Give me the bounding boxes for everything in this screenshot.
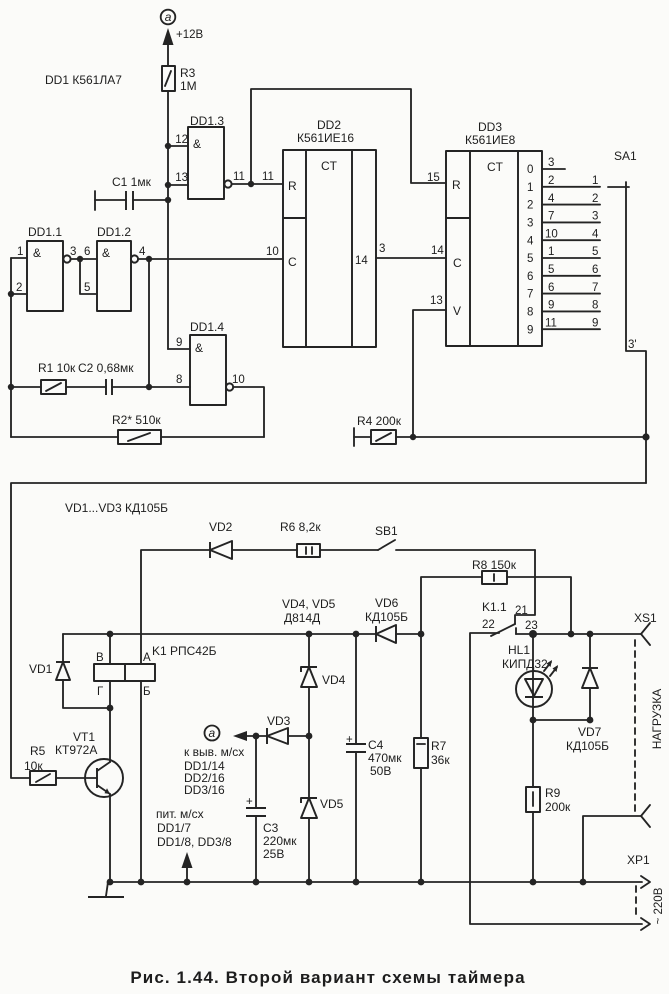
svg-text:VD4, VD5: VD4, VD5 xyxy=(282,597,336,611)
svg-text:&: & xyxy=(193,137,201,151)
wire collector xyxy=(109,708,111,762)
svg-text:Г: Г xyxy=(97,686,104,698)
svg-text:470мк: 470мк xyxy=(368,751,402,765)
svg-text:1: 1 xyxy=(17,246,23,258)
node R4 / V junction xyxy=(410,434,416,440)
svg-text:VD1...VD3 КД105Б: VD1...VD3 КД105Б xyxy=(65,501,168,515)
node C4 bottom junction xyxy=(353,879,360,886)
wire DD1.2 out to DD2 C xyxy=(138,258,283,260)
svg-text:В: В xyxy=(96,652,104,664)
svg-text:8: 8 xyxy=(176,374,182,386)
resistor R1 xyxy=(11,361,106,394)
node R7 bottom junction xyxy=(418,879,425,886)
wire R3 to gate inputs xyxy=(167,91,169,349)
svg-text:C: C xyxy=(453,256,462,270)
svg-text:8: 8 xyxy=(527,307,533,319)
gate DD1.4 xyxy=(149,320,245,405)
svg-text:4: 4 xyxy=(548,193,555,205)
DD3 output 1 pin 2 / wire to SA1 contact 1 xyxy=(527,175,600,194)
svg-text:13: 13 xyxy=(430,295,443,307)
wire out4 down to C2 row xyxy=(148,259,150,387)
svg-text:7: 7 xyxy=(527,289,533,301)
svg-text:2: 2 xyxy=(592,193,598,205)
svg-text:5: 5 xyxy=(527,253,533,265)
relay contact K1.1 xyxy=(482,600,538,636)
svg-text:~ 220В: ~ 220В xyxy=(653,887,665,924)
svg-text:DD1.1: DD1.1 xyxy=(28,225,62,239)
svg-text:С2 0,68мк: С2 0,68мк xyxy=(78,361,134,375)
resistor R5 xyxy=(24,744,56,785)
node HL1 bottom junction xyxy=(530,717,537,724)
svg-text:R4 200к: R4 200к xyxy=(357,414,402,428)
node C2 right junction xyxy=(146,384,152,390)
svg-text:1М: 1М xyxy=(180,79,197,93)
svg-text:R: R xyxy=(288,179,297,193)
resistor R4 xyxy=(354,414,646,446)
capacitor C4 xyxy=(346,634,402,882)
svg-text:25В: 25В xyxy=(263,847,284,861)
svg-text:7: 7 xyxy=(592,282,598,294)
node VD5 bottom junction xyxy=(306,879,313,886)
DD3 output 4 pin 10 / wire to SA1 contact 4 xyxy=(527,228,600,247)
svg-text:DD3: DD3 xyxy=(478,120,502,134)
svg-text:4: 4 xyxy=(527,235,534,247)
svg-text:&: & xyxy=(33,246,41,260)
node relay B top junction xyxy=(107,631,114,638)
connector XP1 upper pin xyxy=(627,853,650,888)
svg-text:10: 10 xyxy=(266,246,279,258)
svg-text:5: 5 xyxy=(592,246,598,258)
svg-text:Д814Д: Д814Д xyxy=(284,611,320,625)
wire mains rail to K1.1 contact 22 xyxy=(470,633,642,924)
wire DD1.3 output to DD2 R xyxy=(232,183,283,185)
node XS1 wire junction xyxy=(580,879,587,886)
svg-text:14: 14 xyxy=(431,245,444,257)
svg-text:пит. м/сх: пит. м/сх xyxy=(156,807,204,821)
svg-text:С1 1мк: С1 1мк xyxy=(112,175,152,189)
connector XS1 upper contact xyxy=(634,611,657,645)
svg-text:11: 11 xyxy=(233,171,245,183)
svg-text:5: 5 xyxy=(548,264,554,276)
node C4 top junction xyxy=(353,631,360,638)
wire ground bus xyxy=(110,881,642,883)
counter DD2 xyxy=(283,118,376,347)
svg-text:HL1: HL1 xyxy=(508,643,530,657)
wire feedback from 3' to R5 rail xyxy=(11,483,646,778)
svg-text:XP1: XP1 xyxy=(627,853,650,867)
transistor VT1 xyxy=(55,730,123,882)
svg-text:3: 3 xyxy=(592,211,598,223)
svg-text:3: 3 xyxy=(379,243,385,255)
arrow to point a xyxy=(233,731,256,741)
svg-text:22: 22 xyxy=(482,619,495,631)
DD3 output 8 pin 9 / wire to SA1 contact 8 xyxy=(527,300,600,319)
gate DD1.2 xyxy=(84,225,146,311)
svg-text:КД105Б: КД105Б xyxy=(566,739,609,753)
svg-text:VD4: VD4 xyxy=(322,673,346,687)
wire DD1.1 out to DD1.2 in xyxy=(71,258,97,260)
node pin2 junction xyxy=(8,291,14,297)
svg-text:КТ972А: КТ972А xyxy=(55,743,97,757)
svg-text:НАГРУЗКА: НАГРУЗКА xyxy=(650,689,664,750)
svg-text:6: 6 xyxy=(84,246,90,258)
svg-text:K1 РПС42Б: K1 РПС42Б xyxy=(152,644,217,658)
svg-text:23: 23 xyxy=(525,620,538,632)
svg-text:6: 6 xyxy=(527,271,533,283)
zener VD5 xyxy=(301,736,344,882)
power arrow to supply xyxy=(156,807,232,882)
svg-text:220мк: 220мк xyxy=(263,834,297,848)
svg-text:DD1 К561ЛА7: DD1 К561ЛА7 xyxy=(45,73,122,87)
svg-text:Рис. 1.44. Второй вариант схем: Рис. 1.44. Второй вариант схемы таймера xyxy=(130,968,525,987)
svg-text:&: & xyxy=(102,246,110,260)
svg-text:VD1: VD1 xyxy=(29,662,53,676)
node C3 bottom junction xyxy=(253,879,260,886)
diode VD1 xyxy=(29,634,110,708)
svg-text:DD2: DD2 xyxy=(317,118,341,132)
wire DD1.4 out to R2 row xyxy=(233,387,264,437)
svg-text:CT: CT xyxy=(321,159,338,173)
counter DD3 xyxy=(446,120,542,346)
node C1 junction xyxy=(165,197,171,203)
svg-text:200к: 200к xyxy=(545,800,571,814)
svg-text:DD1.3: DD1.3 xyxy=(190,114,224,128)
svg-text:10: 10 xyxy=(232,374,245,386)
node VD4 top junction xyxy=(306,631,313,638)
svg-text:&: & xyxy=(195,341,203,355)
node pin12 junction xyxy=(165,143,171,149)
svg-text:2: 2 xyxy=(16,282,22,294)
node R9 bottom junction xyxy=(530,879,537,886)
svg-text:2: 2 xyxy=(548,175,554,187)
svg-text:13: 13 xyxy=(175,172,188,184)
node VD7 top junction xyxy=(587,631,594,638)
svg-text:14: 14 xyxy=(355,255,368,267)
svg-text:C: C xyxy=(288,255,297,269)
svg-text:Б: Б xyxy=(143,686,151,698)
svg-text:9: 9 xyxy=(592,317,598,329)
node VD7 bottom junction xyxy=(587,717,594,724)
svg-text:R6 8,2к: R6 8,2к xyxy=(280,520,321,534)
resistor R6 xyxy=(280,520,378,557)
svg-text:К561ИЕ16: К561ИЕ16 xyxy=(297,131,354,145)
node out4 junction xyxy=(146,256,152,262)
DD3 output 6 pin 5 / wire to SA1 contact 6 xyxy=(527,264,600,283)
wire DD3 pin13 V to R4 row xyxy=(413,310,446,437)
svg-text:DD1.2: DD1.2 xyxy=(97,225,131,239)
svg-text:DD1/8, DD3/8: DD1/8, DD3/8 xyxy=(157,835,232,849)
svg-text:а: а xyxy=(209,726,216,740)
node VD3/VD4 junction xyxy=(306,733,313,740)
node arrow junction xyxy=(184,879,191,886)
capacitor C3 xyxy=(246,736,297,882)
svg-text:3: 3 xyxy=(527,218,533,230)
svg-text:R9: R9 xyxy=(545,786,561,800)
svg-text:R3: R3 xyxy=(180,66,196,80)
diode VD3 xyxy=(256,714,309,744)
svg-text:VD5: VD5 xyxy=(320,797,344,811)
svg-text:VD7: VD7 xyxy=(578,725,602,739)
switch SB1 xyxy=(375,524,535,550)
node VD1/collector junction xyxy=(107,705,114,712)
wire to XS1 lower contact xyxy=(583,816,641,882)
svg-text:50В: 50В xyxy=(370,764,391,778)
SA1 switch xyxy=(608,149,646,483)
gate DD1.1 xyxy=(11,225,76,311)
svg-text:9: 9 xyxy=(548,300,554,312)
label VD4 VD5 type xyxy=(282,597,336,625)
svg-text:6: 6 xyxy=(592,264,598,276)
DD3 output 3 pin 7 / wire to SA1 contact 3 xyxy=(527,211,600,230)
node a (terminal circle bottom) xyxy=(184,726,244,798)
wire left rail (inputs / R1 / R2) xyxy=(10,258,12,437)
svg-text:1: 1 xyxy=(592,175,598,187)
svg-text:VD2: VD2 xyxy=(209,520,233,534)
svg-text:4: 4 xyxy=(592,228,599,240)
node a (terminal circle) xyxy=(161,10,176,25)
svg-text:7: 7 xyxy=(548,211,554,223)
svg-text:4: 4 xyxy=(139,246,146,258)
svg-text:КД105Б: КД105Б xyxy=(365,610,408,624)
svg-text:DD1/7: DD1/7 xyxy=(157,821,191,835)
node R8 right junction xyxy=(568,631,575,638)
svg-text:DD3/16: DD3/16 xyxy=(184,783,225,797)
capacitor C2 xyxy=(78,361,149,395)
svg-text:3: 3 xyxy=(548,157,554,169)
capacitor C1 xyxy=(95,175,168,210)
svg-text:к выв. м/сх: к выв. м/сх xyxy=(184,745,244,759)
svg-text:36к: 36к xyxy=(431,753,450,767)
node emitter/ground junction xyxy=(107,879,114,886)
LED HL1 xyxy=(502,634,558,720)
svg-text:КИПД32: КИПД32 xyxy=(502,657,548,671)
wire DC bus right segment xyxy=(533,633,641,635)
diode VD2 xyxy=(209,520,297,559)
svg-text:5: 5 xyxy=(84,282,90,294)
svg-text:21: 21 xyxy=(515,605,528,617)
svg-text:VD3: VD3 xyxy=(267,714,291,728)
svg-text:К561ИЕ8: К561ИЕ8 xyxy=(465,133,516,147)
relay coil K1 xyxy=(94,634,217,882)
svg-text:0: 0 xyxy=(527,164,533,176)
resistor R9 xyxy=(526,720,571,882)
wire DD2 out to DD3 C xyxy=(376,257,446,259)
wire relay A to VD2 row xyxy=(141,550,210,664)
DD3 output 2 pin 4 / wire to SA1 contact 2 xyxy=(527,193,600,212)
svg-text:K1.1: K1.1 xyxy=(482,600,507,614)
diode VD6 xyxy=(365,596,421,643)
svg-text:R5: R5 xyxy=(30,744,46,758)
svg-text:1: 1 xyxy=(548,246,554,258)
diode VD7 xyxy=(533,634,609,753)
svg-text:9: 9 xyxy=(176,337,182,349)
node R1 row left junction xyxy=(8,384,14,390)
svg-text:R1 10к: R1 10к xyxy=(38,361,76,375)
svg-text:CT: CT xyxy=(487,160,504,174)
DD3 output 5 pin 1 / wire to SA1 contact 5 xyxy=(527,246,600,265)
svg-text:3': 3' xyxy=(628,339,637,351)
svg-text:R8 150к: R8 150к xyxy=(472,558,517,572)
DD3 output 7 pin 6 / wire to SA1 contact 7 xyxy=(527,282,600,301)
node relay B bottom junction xyxy=(138,879,145,886)
DD3 output 9 pin 11 / wire to SA1 contact 9 xyxy=(527,317,600,336)
resistor R8 xyxy=(421,558,571,634)
svg-text:SB1: SB1 xyxy=(375,524,398,538)
DD3 output 0 pin 3 xyxy=(527,157,565,176)
svg-text:11: 11 xyxy=(545,317,557,329)
svg-text:15: 15 xyxy=(427,172,440,184)
svg-text:3: 3 xyxy=(70,246,76,258)
svg-text:R7: R7 xyxy=(431,739,447,753)
svg-text:C4: C4 xyxy=(368,738,384,752)
resistor R7 xyxy=(414,634,450,882)
node bus/R8/R7 junction xyxy=(418,631,425,638)
gate DD1.3 xyxy=(168,114,245,199)
connector XS1 lower contact xyxy=(641,805,650,827)
load dashed link XS1 xyxy=(634,640,636,812)
ground xyxy=(88,882,124,897)
svg-text:XS1: XS1 xyxy=(634,611,657,625)
node pin13 junction xyxy=(165,182,171,188)
svg-text:12: 12 xyxy=(175,134,188,146)
node gate link junction xyxy=(77,256,83,262)
node contact 23 junction xyxy=(529,630,537,638)
node C3/VD3 junction xyxy=(253,733,260,740)
svg-text:R2* 510к: R2* 510к xyxy=(112,413,161,427)
resistor R2 xyxy=(11,413,264,444)
svg-text:SA1: SA1 xyxy=(614,149,637,163)
wire DD1.3 out to DD3 R (top detour) xyxy=(251,89,446,184)
wire link to pin 5 xyxy=(80,259,97,294)
connector XP1 lower pin xyxy=(641,918,650,930)
svg-text:R: R xyxy=(452,178,461,192)
svg-text:DD1.4: DD1.4 xyxy=(190,320,224,334)
resistor R3 xyxy=(162,66,197,93)
svg-text:+: + xyxy=(246,796,253,808)
svg-text:+12В: +12В xyxy=(176,29,204,41)
svg-text:а: а xyxy=(165,10,172,24)
svg-text:10: 10 xyxy=(545,228,558,240)
svg-text:6: 6 xyxy=(548,282,554,294)
svg-text:9: 9 xyxy=(527,324,533,336)
node SA1-R4 junction xyxy=(642,433,649,440)
wire DC bus left segment xyxy=(63,633,376,635)
zener VD4 xyxy=(301,634,346,736)
mains dashed link XP1 xyxy=(635,886,637,918)
svg-text:V: V xyxy=(453,304,461,318)
svg-text:11: 11 xyxy=(262,171,274,183)
svg-text:2: 2 xyxy=(527,200,533,212)
svg-text:А: А xyxy=(143,652,151,664)
svg-text:C3: C3 xyxy=(263,821,279,835)
svg-text:1: 1 xyxy=(527,182,533,194)
svg-text:VT1: VT1 xyxy=(73,730,95,744)
node output11 junction xyxy=(248,181,254,187)
wire SB1 to K1.1 pole xyxy=(515,550,535,624)
svg-text:VD6: VD6 xyxy=(375,596,399,610)
power +12V arrow xyxy=(163,28,204,66)
svg-text:8: 8 xyxy=(592,300,598,312)
